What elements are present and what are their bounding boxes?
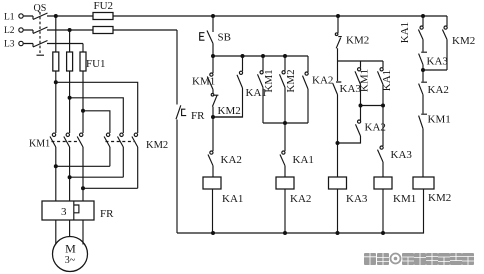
svg-text:KM1: KM1 — [263, 69, 275, 92]
svg-text:KM2: KM2 — [452, 35, 475, 47]
svg-text:KA1: KA1 — [222, 193, 243, 205]
svg-text:KA3: KA3 — [427, 56, 449, 68]
svg-text:QS: QS — [34, 3, 47, 14]
svg-text:3: 3 — [61, 206, 67, 218]
svg-text:KA1: KA1 — [293, 154, 314, 166]
svg-text:M: M — [65, 242, 76, 256]
svg-text:KM1: KM1 — [29, 139, 50, 150]
svg-text:KA2: KA2 — [428, 84, 449, 96]
svg-text:KM2: KM2 — [146, 140, 168, 151]
svg-text:L3: L3 — [4, 40, 15, 50]
svg-text:FR: FR — [100, 208, 114, 220]
svg-text:KM2: KM2 — [346, 35, 369, 47]
svg-text:SB: SB — [218, 32, 231, 44]
svg-text:L2: L2 — [4, 26, 15, 36]
svg-text:KA2: KA2 — [312, 75, 333, 87]
svg-text:FR: FR — [191, 110, 205, 122]
svg-text:KM1: KM1 — [393, 193, 416, 205]
svg-text:KM1: KM1 — [428, 114, 451, 126]
svg-text:KM1: KM1 — [359, 69, 371, 92]
svg-text:FU1: FU1 — [86, 58, 106, 70]
svg-text:KA1: KA1 — [381, 70, 393, 91]
svg-text:KA2: KA2 — [221, 154, 242, 166]
svg-text:KA3: KA3 — [346, 193, 368, 205]
svg-text:FU2: FU2 — [94, 0, 114, 12]
svg-text:KM2: KM2 — [285, 69, 297, 92]
svg-text:3~: 3~ — [65, 255, 76, 266]
svg-text:KA1: KA1 — [399, 22, 411, 43]
svg-text:KA3: KA3 — [391, 149, 413, 161]
svg-text:KM1: KM1 — [192, 76, 215, 88]
svg-text:L1: L1 — [4, 13, 15, 23]
svg-text:KA2: KA2 — [365, 122, 386, 134]
svg-text:KA2: KA2 — [290, 193, 311, 205]
svg-text:KM2: KM2 — [428, 192, 451, 204]
svg-text:KM2: KM2 — [218, 105, 241, 117]
